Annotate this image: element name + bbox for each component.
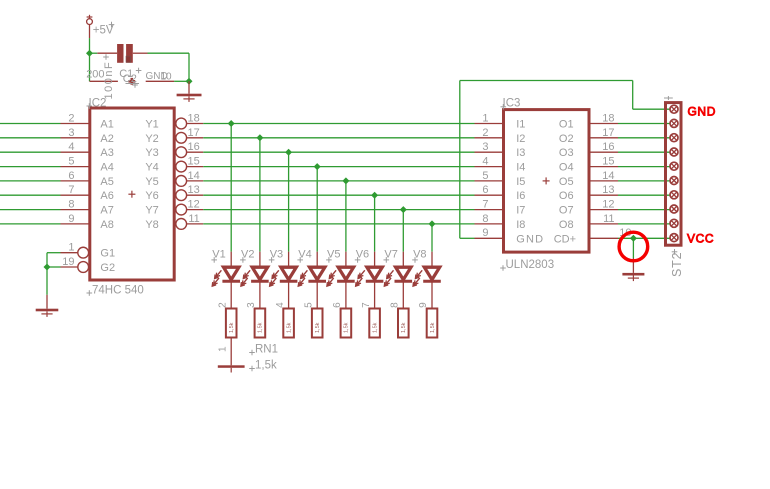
wire column to LED V7 <box>402 210 404 252</box>
IC3 pin number 2 <box>482 127 488 139</box>
LED V4 arrows <box>298 270 307 286</box>
IC2 pin Y4 stub <box>187 166 204 168</box>
RN1 label <box>249 344 278 356</box>
RN1 pin number 5 <box>303 302 314 308</box>
svg-text:O4: O4 <box>559 162 574 174</box>
ST2 pad 4 <box>670 148 678 156</box>
svg-text:7: 7 <box>361 302 372 308</box>
junction node row 16 <box>285 149 292 156</box>
IC3 pin O5 stub <box>589 180 618 182</box>
wire G1 to junction <box>47 253 61 267</box>
IC2 pin A7 stub <box>61 209 90 211</box>
IC2 pin number 7 <box>68 184 74 196</box>
wire row Y8 to I8 <box>203 223 474 225</box>
IC2 pin A5 stub <box>61 180 90 182</box>
IC3 pin number 8 <box>482 213 488 225</box>
IC3 pin I3 stub <box>475 151 504 153</box>
LED V8 label <box>412 249 426 263</box>
svg-text:3: 3 <box>246 302 257 308</box>
IC3 pin name O6 <box>559 190 574 202</box>
wire column to LED V1 <box>230 124 232 252</box>
ST2 pad 6 <box>670 177 678 185</box>
LED V2 anode pin <box>259 252 261 268</box>
IC2 pin name A8 <box>100 219 113 231</box>
IC3 pin GND stub <box>475 237 504 239</box>
svg-text:RN1: RN1 <box>255 344 278 356</box>
wire input row 7 (net to A7) <box>0 209 61 211</box>
IC2 pin name A5 <box>100 176 113 188</box>
LED V8 cathode wire <box>431 281 433 308</box>
LED V8 triangle <box>423 267 441 281</box>
LED V7 anode pin <box>402 252 404 268</box>
svg-text:13: 13 <box>602 184 614 196</box>
connector ST2 box <box>666 103 682 246</box>
wire input row 2 (net to A2) <box>0 137 61 139</box>
IC2 pin name G2 <box>100 262 115 274</box>
svg-text:A4: A4 <box>100 162 113 174</box>
svg-text:I5: I5 <box>516 176 525 188</box>
svg-text:O1: O1 <box>559 119 574 131</box>
ST2 pad 1 <box>670 105 678 113</box>
IC2 pin A6 stub <box>61 194 90 196</box>
capacitor C1 right pin <box>146 80 174 82</box>
svg-text:G2: G2 <box>100 262 115 274</box>
LED V6 anode pin <box>374 252 376 268</box>
IC2 value 74HC 540 <box>87 285 144 297</box>
IC3 pin number 10 <box>619 227 631 239</box>
wire cap loop left vertical <box>89 53 91 81</box>
wire row Y4 to I4 <box>203 166 474 168</box>
IC2 pin name Y6 <box>145 190 158 202</box>
label 10 overlap <box>161 72 173 83</box>
svg-text:1: 1 <box>482 112 488 124</box>
svg-text:2: 2 <box>217 302 228 308</box>
wire input row 1 (net to A1) <box>0 123 61 125</box>
RN1 pin number 3 <box>246 302 257 308</box>
IC2 pin number 17 <box>188 127 200 139</box>
wire O6 to ST2 <box>618 194 674 196</box>
svg-text:1: 1 <box>217 346 228 352</box>
junction node row 18 <box>228 120 235 127</box>
LED V3 anode pin <box>288 252 290 268</box>
svg-text:14: 14 <box>188 170 200 182</box>
IC3 pin O2 stub <box>589 137 618 139</box>
svg-text:A7: A7 <box>100 205 113 217</box>
IC2 output bubble Y3 <box>176 147 187 158</box>
svg-text:8: 8 <box>390 302 401 308</box>
resistor RN1 element 5 body <box>341 309 352 338</box>
IC3 pin name I7 <box>516 205 525 217</box>
svg-text:A3: A3 <box>100 147 113 159</box>
wire input row 4 (net to A4) <box>0 166 61 168</box>
wire O7 to ST2 <box>618 209 674 211</box>
IC2 pin name A1 <box>100 119 113 131</box>
IC3 pin name CD+ <box>554 233 576 245</box>
IC2 pin name Y2 <box>145 133 158 145</box>
svg-text:17: 17 <box>188 127 200 139</box>
LED V2 label <box>240 249 254 263</box>
LED V8 arrows <box>413 270 422 286</box>
wire O4 to ST2 <box>618 166 674 168</box>
IC2 pin Y7 stub <box>187 209 204 211</box>
grey cross a <box>103 54 109 60</box>
IC2 pin A3 stub <box>61 151 90 153</box>
grey cross b <box>136 68 142 74</box>
label C1 <box>119 68 133 80</box>
svg-text:Y7: Y7 <box>145 205 158 217</box>
svg-text:O3: O3 <box>559 147 574 159</box>
svg-text:1: 1 <box>68 242 74 254</box>
LED V2 triangle <box>251 267 269 281</box>
svg-text:1,5k: 1,5k <box>401 322 407 333</box>
IC2 pin name Y8 <box>145 219 158 231</box>
LED V6 cathode wire <box>374 281 376 308</box>
LED V3 triangle <box>280 267 298 281</box>
svg-text:12: 12 <box>602 199 614 211</box>
svg-text:8: 8 <box>68 199 74 211</box>
IC3 pin CD+ stub <box>589 237 618 239</box>
IC2 pin number 2 <box>68 112 74 124</box>
wire row Y6 to I6 <box>203 194 474 196</box>
LED V4 anode pin <box>316 252 318 268</box>
IC3 pin name I8 <box>516 219 525 231</box>
RN1 pin number 6 <box>332 302 343 308</box>
junction node row 13 <box>371 192 378 199</box>
svg-text:9: 9 <box>482 227 488 239</box>
IC IC3 ULN2803 box <box>504 110 590 253</box>
svg-text:1,5k: 1,5k <box>430 322 436 333</box>
op-amp IC2 74HC540 box <box>90 108 174 280</box>
IC3 pin name O2 <box>559 133 574 145</box>
IC2 pin name A7 <box>100 205 113 217</box>
wire row Y2 to I2 <box>203 137 474 139</box>
svg-text:A6: A6 <box>100 190 113 202</box>
LED V5 cathode wire <box>345 281 347 308</box>
label GND net <box>146 71 168 82</box>
junction G1/G2 <box>44 264 51 271</box>
label GND <box>688 104 716 118</box>
svg-text:O2: O2 <box>559 133 574 145</box>
svg-text:O6: O6 <box>559 190 574 202</box>
wire +5V down <box>89 38 91 53</box>
IC2 pin name A4 <box>100 162 113 174</box>
svg-text:I3: I3 <box>516 147 525 159</box>
junction node row 12 <box>400 206 407 213</box>
svg-text:Y8: Y8 <box>145 219 158 231</box>
RN1 value 1,5k <box>249 360 277 372</box>
IC2 pin Y2 stub <box>187 137 204 139</box>
IC2 pin number 9 <box>68 213 74 225</box>
IC3 pin name O1 <box>559 119 574 131</box>
LED V1 triangle <box>222 267 240 281</box>
RN1 common pin wire <box>230 338 232 366</box>
wire row Y1 to I1 <box>203 123 474 125</box>
IC2 pin Y5 stub <box>187 180 204 182</box>
capacitor C2 right pin <box>133 52 148 54</box>
IC3 pin number 6 <box>482 184 488 196</box>
label VCC <box>687 231 714 245</box>
IC2 pin A1 stub <box>61 123 90 125</box>
RN1 pin number 4 <box>275 302 286 308</box>
IC3 pin I1 stub <box>475 123 504 125</box>
IC2 pin name Y5 <box>145 176 158 188</box>
wire column to LED V4 <box>316 167 318 252</box>
ST2 pad 10 <box>670 234 678 242</box>
ground symbol at VCC node <box>622 258 644 281</box>
IC3 pin number 13 right <box>602 184 614 196</box>
wire column to LED V6 <box>374 195 376 252</box>
error highlight circle <box>619 232 648 261</box>
LED V4 triangle <box>308 267 326 281</box>
resistor RN1 element 8 body <box>427 309 438 338</box>
LED V3 label <box>269 249 283 263</box>
ST2 pad 3 <box>670 134 678 142</box>
svg-text:A2: A2 <box>100 133 113 145</box>
svg-text:+5V: +5V <box>93 25 114 37</box>
LED V1 arrows <box>212 270 221 286</box>
ground symbol at caps <box>177 81 202 102</box>
svg-text:O8: O8 <box>559 219 574 231</box>
svg-text:9: 9 <box>418 302 429 308</box>
svg-text:I7: I7 <box>516 205 525 217</box>
svg-text:100nF: 100nF <box>103 61 115 100</box>
svg-text:I1: I1 <box>516 119 525 131</box>
wire input row 5 (net to A5) <box>0 180 61 182</box>
resistor RN1 element 1 body <box>226 309 237 338</box>
svg-text:5: 5 <box>303 302 314 308</box>
svg-text:6: 6 <box>482 184 488 196</box>
IC2 pin name Y7 <box>145 205 158 217</box>
svg-text:Y1: Y1 <box>145 119 158 131</box>
wire O3 to ST2 <box>618 151 674 153</box>
svg-text:IC3: IC3 <box>503 98 521 110</box>
IC2 pin G2 stub <box>61 266 79 268</box>
IC3 pin O4 stub <box>589 166 618 168</box>
svg-text:O5: O5 <box>559 176 574 188</box>
svg-text:15: 15 <box>188 156 200 168</box>
IC3 pin name O3 <box>559 147 574 159</box>
svg-text:2: 2 <box>482 127 488 139</box>
svg-text:I4: I4 <box>516 162 525 174</box>
IC2 pin Y8 stub <box>187 223 204 225</box>
LED V8 anode pin <box>431 252 433 268</box>
IC3 pin I4 stub <box>475 166 504 168</box>
wire O2 to ST2 <box>618 137 674 139</box>
IC2 output bubble Y7 <box>176 204 187 215</box>
wire VCC node down <box>632 238 634 258</box>
IC2 pin name Y3 <box>145 147 158 159</box>
LED V2 arrows <box>241 270 250 286</box>
ST2 pad 9 <box>670 219 678 227</box>
svg-text:Y6: Y6 <box>145 190 158 202</box>
svg-text:ST2: ST2 <box>670 252 684 277</box>
svg-text:I8: I8 <box>516 219 525 231</box>
LED V7 label <box>384 249 398 263</box>
wire input row 6 (net to A6) <box>0 194 61 196</box>
IC2 pin number 4 <box>68 141 74 153</box>
IC3 pin I6 stub <box>475 194 504 196</box>
IC2 pin name G1 <box>100 248 115 260</box>
IC3 origin cross <box>543 177 550 184</box>
IC3 pin I2 stub <box>475 137 504 139</box>
label 100nF vertical <box>103 61 115 100</box>
label C2 <box>123 73 137 85</box>
LED V4 cathode wire <box>316 281 318 308</box>
capacitor C2 plates <box>117 44 133 63</box>
resistor RN1 element 6 body <box>369 309 380 338</box>
resistor RN1 element 7 body <box>398 309 409 338</box>
svg-text:16: 16 <box>602 141 614 153</box>
ground symbol at IC2 enables <box>36 295 59 317</box>
svg-text:7: 7 <box>482 199 488 211</box>
svg-text:1,5k: 1,5k <box>286 322 292 333</box>
IC2 label <box>87 98 107 110</box>
svg-text:9: 9 <box>68 213 74 225</box>
wire cap bottom right <box>174 80 189 82</box>
IC2 pin number 5 <box>68 156 74 168</box>
svg-text:A5: A5 <box>100 176 113 188</box>
junction cap gnd node <box>186 78 193 85</box>
IC2 pin name Y1 <box>145 119 158 131</box>
LED V5 label <box>326 249 340 263</box>
IC2 pin number 3 <box>68 127 74 139</box>
svg-text:1,5k: 1,5k <box>344 322 350 333</box>
IC2 pin number 18 <box>188 112 200 124</box>
svg-text:2: 2 <box>68 112 74 124</box>
label 200 <box>86 69 104 81</box>
IC2 pin name A3 <box>100 147 113 159</box>
LED V1 anode pin <box>230 252 232 268</box>
junction node row 15 <box>314 163 321 170</box>
IC3 pin name I4 <box>516 162 525 174</box>
IC3 pin number 11 right <box>603 213 614 225</box>
IC2 pin number 12 <box>188 199 200 211</box>
svg-text:74HC 540: 74HC 540 <box>92 285 144 297</box>
LED V5 triangle <box>337 267 355 281</box>
junction node row 14 <box>342 177 349 184</box>
IC2 pin number 19 <box>62 256 74 268</box>
wire row Y3 to I3 <box>203 151 474 153</box>
svg-text:19: 19 <box>62 256 74 268</box>
svg-text:1,5k: 1,5k <box>229 322 235 333</box>
junction +5V node <box>86 50 93 57</box>
svg-text:1,5k: 1,5k <box>315 322 321 333</box>
svg-text:10: 10 <box>161 72 173 83</box>
svg-text:I2: I2 <box>516 133 525 145</box>
IC3 pin O1 stub <box>589 123 618 125</box>
IC3 pin number 3 <box>482 141 488 153</box>
svg-text:4: 4 <box>68 141 74 153</box>
wire input row 3 (net to A3) <box>0 151 61 153</box>
ST2 pad 8 <box>670 205 678 213</box>
RN1 pin number 8 <box>390 302 401 308</box>
IC3 pin number 4 <box>482 156 488 168</box>
RN1 pin number 2 <box>217 302 228 308</box>
wire input row 8 (net to A8) <box>0 223 61 225</box>
wire column to LED V5 <box>345 181 347 252</box>
IC3 pin number 5 <box>482 170 488 182</box>
svg-text:11: 11 <box>603 213 614 225</box>
svg-text:3: 3 <box>68 127 74 139</box>
wire row Y5 to I5 <box>203 180 474 182</box>
ST2 pad 5 <box>670 162 678 170</box>
IC2 pin G1 stub <box>61 252 79 254</box>
wire junction down <box>46 267 48 295</box>
IC2 G1 bubble <box>78 247 89 258</box>
LED V5 anode pin <box>345 252 347 268</box>
RN1 pin number 9 <box>418 302 429 308</box>
junction node row 11 <box>429 220 436 227</box>
supply +5V symbol <box>87 15 93 25</box>
LED V6 arrows <box>356 270 365 286</box>
LED V1 label <box>211 249 225 263</box>
IC3 pin number 16 right <box>602 141 614 153</box>
svg-text:4: 4 <box>482 156 488 168</box>
svg-text:O7: O7 <box>559 205 574 217</box>
label +5V <box>93 22 115 37</box>
wire CD+ to ST2 VCC <box>618 237 674 239</box>
IC3 pin name GND <box>516 233 544 245</box>
RN1 pin number 1 <box>217 346 228 352</box>
LED V5 arrows <box>327 270 336 286</box>
IC3 pin number 18 right <box>602 112 614 124</box>
svg-text:I6: I6 <box>516 190 525 202</box>
IC3 pin I5 stub <box>475 180 504 182</box>
IC2 pin number 13 <box>188 184 200 196</box>
LED V6 label <box>355 249 369 263</box>
wire O8 to ST2 <box>618 223 674 225</box>
IC3 pin name I1 <box>516 119 525 131</box>
capacitor C1 origin cross <box>128 78 135 85</box>
wire column to LED V8 <box>431 224 433 252</box>
IC3 pin I7 stub <box>475 209 504 211</box>
IC2 pin number 15 <box>188 156 200 168</box>
svg-text:8: 8 <box>482 213 488 225</box>
wire O5 to ST2 <box>618 180 674 182</box>
resistor RN1 element 2 body <box>255 309 266 338</box>
wire row Y7 to I7 <box>203 209 474 211</box>
IC2 pin name A6 <box>100 190 113 202</box>
IC2 output bubble Y8 <box>176 219 187 230</box>
IC3 pin name I5 <box>516 176 525 188</box>
svg-text:6: 6 <box>332 302 343 308</box>
svg-text:11: 11 <box>188 213 199 225</box>
ST2 pad 2 <box>670 119 678 127</box>
IC2 pin A2 stub <box>61 137 90 139</box>
IC2 pin Y1 stub <box>187 123 204 125</box>
IC3 pin O7 stub <box>589 209 618 211</box>
svg-text:1,5k: 1,5k <box>372 322 378 333</box>
IC2 pin number 14 <box>188 170 200 182</box>
svg-text:7: 7 <box>68 184 74 196</box>
svg-text:18: 18 <box>188 112 200 124</box>
IC3 pin name O7 <box>559 205 574 217</box>
IC2 output bubble Y5 <box>176 176 187 187</box>
svg-text:18: 18 <box>602 112 614 124</box>
IC2 pin number 6 <box>68 170 74 182</box>
wire O1 to ST2 <box>618 123 674 125</box>
LED V7 triangle <box>395 267 413 281</box>
IC2 pin number 8 <box>68 199 74 211</box>
wire column to LED V3 <box>288 152 290 252</box>
LED V3 arrows <box>270 270 279 286</box>
svg-text:17: 17 <box>602 127 614 139</box>
ST2 pad 7 <box>670 191 678 199</box>
svg-text:5: 5 <box>68 156 74 168</box>
svg-text:1,5k: 1,5k <box>255 360 277 372</box>
LED V3 cathode wire <box>288 281 290 308</box>
svg-text:G1: G1 <box>100 248 115 260</box>
